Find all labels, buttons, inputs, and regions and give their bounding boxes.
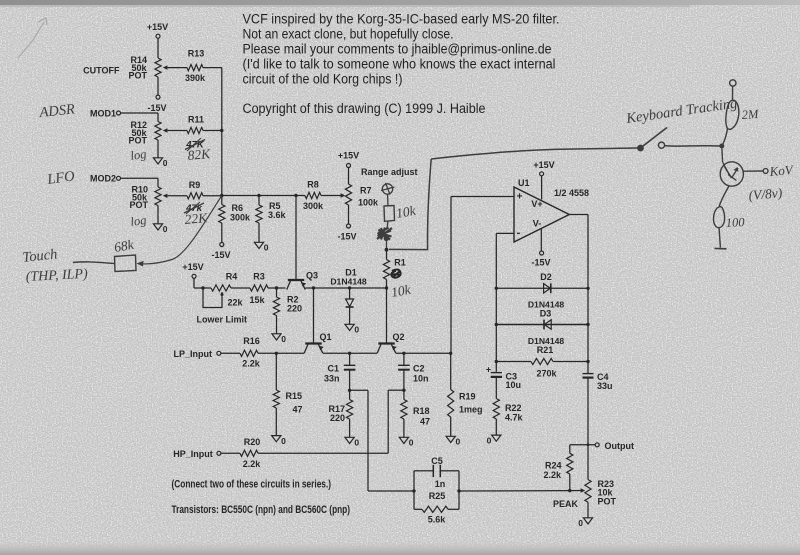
svg-text:Q3: Q3 bbox=[306, 271, 318, 281]
resistor R9 (47k crossed out, now 22K) bbox=[184, 180, 222, 214]
node MOD1 bbox=[90, 109, 158, 119]
scribbled-out +15V terminal bbox=[377, 221, 392, 248]
svg-text:R16: R16 bbox=[243, 336, 260, 346]
hand-drawn trimmer circle bbox=[381, 183, 395, 206]
potentiometer R10 50k bbox=[129, 178, 187, 210]
terminal KoV bbox=[763, 169, 768, 174]
svg-text:R7: R7 bbox=[360, 186, 372, 196]
annotation 68k bbox=[113, 237, 136, 255]
annotation 100 bbox=[725, 215, 745, 230]
junction keyboard tracking bbox=[719, 144, 724, 149]
op-amp U1 1/2 4558 bbox=[514, 178, 589, 242]
junction C5 box right bbox=[457, 489, 460, 492]
svg-text:C1: C1 bbox=[327, 364, 339, 374]
svg-text:-15V: -15V bbox=[147, 103, 166, 113]
wire Touch to box bbox=[73, 262, 115, 264]
resistor R24 2.2k bbox=[543, 445, 572, 491]
wire R19 column bbox=[450, 353, 452, 389]
trimmer R4 22k bbox=[197, 272, 248, 325]
wire box to bus junction bbox=[137, 196, 222, 266]
vertical bus wire bbox=[221, 68, 223, 196]
svg-text:Range adjust: Range adjust bbox=[361, 167, 418, 177]
svg-text:(Connect two of these circuits: (Connect two of these circuits in series… bbox=[172, 479, 332, 491]
svg-text:0: 0 bbox=[264, 243, 269, 253]
junction C1 bbox=[348, 352, 351, 355]
junction Q3 base-bus bbox=[294, 194, 297, 197]
svg-text:10n: 10n bbox=[413, 374, 429, 384]
svg-text:-: - bbox=[517, 227, 521, 239]
svg-text:HP_Input: HP_Input bbox=[173, 449, 213, 459]
svg-text:2.2k: 2.2k bbox=[543, 470, 562, 480]
annotation KoV bbox=[768, 162, 795, 179]
svg-text:3.6k: 3.6k bbox=[268, 210, 287, 220]
wire C1 to C5 box bbox=[350, 390, 414, 491]
svg-text:V+: V+ bbox=[531, 199, 542, 209]
svg-text:33u: 33u bbox=[597, 381, 613, 391]
resistor R18 47 bbox=[399, 390, 430, 448]
capacitor C3 10u (polarized) bbox=[486, 365, 521, 399]
svg-text:0: 0 bbox=[578, 518, 583, 528]
svg-text:100: 100 bbox=[725, 215, 745, 230]
annotation 10k (R1) bbox=[390, 282, 413, 300]
svg-text:V-: V- bbox=[533, 219, 542, 229]
ground (R10) bbox=[153, 206, 167, 235]
svg-text:0: 0 bbox=[487, 436, 492, 446]
svg-text:220: 220 bbox=[287, 304, 302, 314]
svg-text:U1: U1 bbox=[518, 178, 530, 188]
power +15V terminal (R4) bbox=[182, 262, 203, 288]
label connect note bbox=[172, 479, 332, 491]
resistor R25 5.6k bbox=[414, 471, 459, 525]
svg-text:log: log bbox=[129, 147, 147, 163]
svg-text:R25: R25 bbox=[429, 491, 446, 501]
resistor R6 300k bbox=[211, 196, 251, 261]
potentiometer R7 100k bbox=[341, 184, 379, 208]
power +15V terminal (R7 top) bbox=[338, 151, 359, 185]
svg-text:VCF inspired by the Korg-35-IC: VCF inspired by the Korg-35-IC-based ear… bbox=[243, 12, 560, 27]
resistor R3 15k bbox=[231, 272, 286, 306]
node LP_Input bbox=[174, 349, 241, 359]
annotation LFO bbox=[45, 168, 76, 188]
svg-text:Lower Limit: Lower Limit bbox=[197, 315, 248, 325]
annotation 2M bbox=[741, 107, 759, 122]
svg-text:C5: C5 bbox=[431, 456, 443, 466]
svg-text:LP_Input: LP_Input bbox=[174, 349, 213, 359]
resistor R19 1meg bbox=[446, 390, 482, 447]
svg-text:C2: C2 bbox=[413, 364, 425, 374]
svg-text:+15V: +15V bbox=[182, 262, 203, 272]
svg-text:10u: 10u bbox=[506, 380, 522, 390]
svg-text:(V/8v): (V/8v) bbox=[748, 185, 783, 203]
wire keyboard tracking (hand) bbox=[389, 148, 638, 250]
hand-drawn resistor 2M bbox=[722, 86, 739, 146]
svg-text:300k: 300k bbox=[303, 201, 324, 211]
svg-text:R13: R13 bbox=[188, 49, 205, 59]
node MOD2 bbox=[90, 174, 158, 184]
resistor R16 2.2k bbox=[240, 336, 304, 369]
hand-drawn transistor bbox=[720, 149, 763, 187]
junction C2 bottom bbox=[402, 389, 405, 392]
wire D3 row bbox=[495, 323, 590, 326]
svg-text:R24: R24 bbox=[545, 461, 562, 471]
svg-text:2.2k: 2.2k bbox=[243, 459, 262, 469]
annotation Touch bbox=[22, 246, 58, 266]
svg-text:0: 0 bbox=[354, 325, 359, 335]
junction C1 bottom bbox=[348, 389, 351, 392]
svg-text:POT: POT bbox=[128, 136, 147, 146]
svg-text:100k: 100k bbox=[358, 198, 379, 208]
svg-text:R9: R9 bbox=[189, 180, 201, 190]
svg-text:R11: R11 bbox=[188, 115, 204, 125]
resistor R5 3.6k bbox=[254, 194, 286, 253]
junction C2 bbox=[402, 352, 405, 355]
power +15V terminal (U1) bbox=[533, 160, 554, 200]
diode D3 D1N4148 bbox=[528, 309, 565, 347]
junction R2 bbox=[275, 286, 278, 289]
svg-text:220: 220 bbox=[330, 413, 345, 423]
svg-text:82K: 82K bbox=[187, 146, 212, 163]
svg-text:CUTOFF: CUTOFF bbox=[83, 66, 120, 76]
svg-text:R1: R1 bbox=[394, 258, 406, 268]
wire op-amp output bbox=[569, 215, 588, 374]
svg-text:PEAK: PEAK bbox=[553, 499, 579, 509]
svg-text:-15V: -15V bbox=[337, 232, 356, 242]
svg-text:log: log bbox=[129, 213, 147, 229]
svg-text:0: 0 bbox=[163, 158, 168, 168]
svg-text:0: 0 bbox=[163, 224, 168, 234]
svg-text:R22: R22 bbox=[505, 403, 522, 413]
wire Q2 emitter to R19 column bbox=[396, 352, 451, 354]
annotation log (R12) bbox=[129, 147, 147, 163]
wire to R4 bbox=[194, 286, 211, 289]
resistor R8 300k bbox=[303, 180, 344, 212]
power -15V terminal (R14 bottom) bbox=[147, 77, 166, 113]
power -15V terminal (R7 bottom) bbox=[337, 205, 356, 242]
svg-text:1n: 1n bbox=[435, 479, 446, 489]
node HP_Input bbox=[173, 449, 240, 459]
junction R1 top bbox=[385, 248, 389, 252]
capacitor C2 10n bbox=[398, 353, 428, 390]
svg-text:-15V: -15V bbox=[531, 258, 550, 268]
svg-text:Transistors: BC550C (npn) and: Transistors: BC550C (npn) and BC560C (pn… bbox=[172, 504, 351, 516]
svg-text:390k: 390k bbox=[185, 73, 206, 83]
ground (R12) bbox=[153, 140, 167, 168]
hand-drawn resistor box 10k bbox=[384, 206, 395, 222]
transistor Q2 bbox=[377, 288, 404, 353]
wire op-amp - input bbox=[496, 233, 514, 371]
resistor R13 390k bbox=[185, 49, 222, 84]
wire R21 row bbox=[495, 360, 590, 363]
annotation 22K bbox=[184, 210, 209, 227]
svg-text:D3: D3 bbox=[540, 309, 552, 319]
svg-text:POT: POT bbox=[129, 200, 148, 210]
resistor R15 47 bbox=[272, 353, 303, 446]
capacitor C5 1n bbox=[414, 456, 459, 489]
svg-text:Q1: Q1 bbox=[320, 332, 332, 342]
ground keyboard tracking (hand) bbox=[715, 247, 727, 249]
label PEAK ground bbox=[578, 502, 592, 528]
svg-text:1meg: 1meg bbox=[459, 405, 483, 415]
svg-text:POT: POT bbox=[598, 497, 617, 507]
svg-text:KoV: KoV bbox=[768, 162, 795, 179]
svg-text:R19: R19 bbox=[459, 392, 476, 402]
svg-text:R15: R15 bbox=[286, 391, 303, 401]
svg-text:Output: Output bbox=[605, 441, 635, 451]
annotation 82K bbox=[187, 146, 212, 163]
svg-text:Please mail your comments to j: Please mail your comments to jhaible@pri… bbox=[243, 42, 552, 57]
resistor R20 2.2k bbox=[240, 437, 388, 469]
hand-drawn resistor box 68k bbox=[115, 255, 137, 272]
potentiometer R14 50k CUTOFF bbox=[83, 55, 187, 81]
svg-text:R6: R6 bbox=[232, 203, 244, 213]
wire box to R24 junction bbox=[459, 490, 570, 492]
power -15V terminal (U1) bbox=[531, 229, 550, 268]
svg-text:+: + bbox=[486, 365, 491, 375]
potentiometer R23 10k PEAK bbox=[553, 479, 617, 509]
svg-text:R20: R20 bbox=[244, 437, 261, 447]
svg-text:R8: R8 bbox=[307, 180, 319, 190]
annotation (V/8v) bbox=[748, 185, 783, 203]
wire output row bbox=[570, 443, 596, 446]
svg-text:R4: R4 bbox=[226, 272, 238, 282]
annotation (THP, ILP) bbox=[25, 267, 88, 285]
svg-text:5.6k: 5.6k bbox=[428, 515, 447, 525]
svg-text:+15V: +15V bbox=[533, 160, 554, 170]
wire D1 row bbox=[305, 287, 386, 289]
svg-text:22K: 22K bbox=[184, 210, 209, 227]
svg-text:Not an exact clone, but hopefu: Not an exact clone, but hopefully close. bbox=[243, 27, 454, 42]
svg-text:300k: 300k bbox=[230, 213, 251, 223]
diode D2 D1N4148 bbox=[528, 272, 565, 310]
power +15V terminal (R14 top) bbox=[147, 22, 168, 58]
svg-text:33n: 33n bbox=[324, 374, 340, 384]
junction R15 bbox=[275, 352, 278, 355]
terminal keyboard tracking top bbox=[730, 80, 736, 86]
svg-text:MOD2: MOD2 bbox=[90, 174, 116, 184]
svg-text:270k: 270k bbox=[536, 369, 557, 379]
svg-text:-15V: -15V bbox=[211, 250, 230, 260]
svg-text:MOD1: MOD1 bbox=[90, 109, 116, 119]
svg-text:circuit of the old Korg chips: circuit of the old Korg chips !) bbox=[243, 72, 403, 87]
resistor R22 4.7k bbox=[487, 399, 524, 446]
junction R1-Q2 bbox=[385, 286, 388, 289]
svg-text:R21: R21 bbox=[537, 345, 554, 355]
svg-text:R3: R3 bbox=[253, 272, 265, 282]
junction Q1 base bbox=[312, 286, 315, 289]
junction C5 box left bbox=[412, 489, 415, 492]
capacitor C4 33u bbox=[583, 372, 613, 480]
resistor R21 270k bbox=[531, 345, 558, 379]
wire op-amp + input bbox=[451, 197, 514, 354]
junction bus node A bbox=[220, 194, 223, 197]
hand-drawn resistor 100 bbox=[714, 186, 729, 248]
svg-text:0: 0 bbox=[281, 334, 286, 344]
wire C2 to HP row bbox=[388, 390, 404, 453]
junction D1 bbox=[348, 286, 351, 289]
svg-text:47: 47 bbox=[420, 417, 430, 427]
annotation Keyboard Tracking bbox=[624, 96, 738, 128]
svg-text:4.7k: 4.7k bbox=[505, 413, 524, 423]
svg-text:+15V: +15V bbox=[338, 151, 359, 161]
svg-text:D1N4148: D1N4148 bbox=[330, 277, 367, 287]
transistor Q1 bbox=[304, 288, 331, 353]
transistor Q3 bbox=[287, 196, 318, 290]
title text block bbox=[243, 12, 560, 117]
svg-text:+15V: +15V bbox=[147, 22, 168, 32]
svg-text:47: 47 bbox=[293, 405, 303, 415]
svg-text:D2: D2 bbox=[540, 272, 552, 282]
capacitor C1 33n bbox=[324, 353, 355, 390]
diode D1 D1N4148 bbox=[330, 268, 367, 335]
resistor R17 220 bbox=[328, 390, 359, 447]
svg-text:2M: 2M bbox=[741, 107, 759, 122]
annotation ADSR bbox=[38, 101, 76, 121]
svg-text:POT: POT bbox=[128, 71, 147, 81]
svg-text:0: 0 bbox=[409, 438, 414, 448]
junction emitter row / R19 column bbox=[449, 352, 452, 355]
potentiometer R12 50k bbox=[128, 113, 187, 146]
svg-text:Copyright of this drawing (C): Copyright of this drawing (C) 1999 J. Ha… bbox=[243, 101, 486, 116]
wire emitter row bbox=[323, 352, 377, 354]
svg-text:1/2 4558: 1/2 4558 bbox=[554, 188, 589, 198]
svg-text:22k: 22k bbox=[228, 298, 244, 308]
resistor R11 (47K crossed out, now 82K) bbox=[185, 115, 222, 152]
label transistors note bbox=[172, 504, 351, 516]
svg-text:15k: 15k bbox=[250, 295, 266, 305]
junction R24-wiper bbox=[568, 489, 571, 492]
resistor R1 (value scribbled, 10k) bbox=[383, 250, 405, 288]
wire bus to R8 bbox=[222, 195, 305, 197]
switch (hand) bbox=[637, 128, 719, 152]
svg-text:(I'd like to talk to someone w: (I'd like to talk to someone who knows t… bbox=[243, 57, 556, 72]
svg-text:0: 0 bbox=[281, 436, 286, 446]
junction R11-bus bbox=[220, 129, 223, 132]
resistor R2 220 bbox=[272, 288, 302, 344]
svg-text:2.2k: 2.2k bbox=[242, 359, 261, 369]
annotation 10k (trimmer) bbox=[395, 203, 418, 221]
svg-text:R18: R18 bbox=[413, 406, 430, 416]
label Range adjust bbox=[361, 167, 418, 177]
faint pencil stroke bbox=[18, 18, 47, 58]
svg-text:Q2: Q2 bbox=[393, 332, 405, 342]
svg-text:0: 0 bbox=[354, 438, 359, 448]
wire D2 row bbox=[495, 287, 590, 290]
annotation log (R10) bbox=[129, 213, 147, 229]
node Output bbox=[595, 441, 634, 451]
svg-text:+: + bbox=[517, 192, 523, 203]
svg-text:0: 0 bbox=[456, 437, 461, 447]
